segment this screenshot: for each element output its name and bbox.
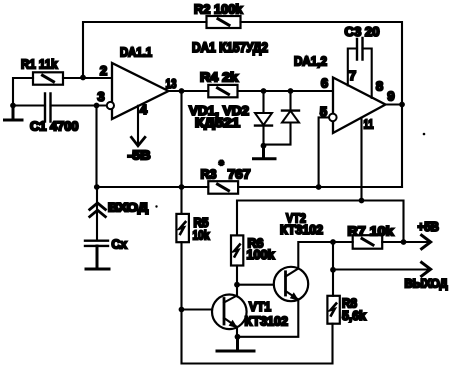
svg-text:-5В: -5В: [128, 148, 151, 163]
capacitor C1: [45, 94, 51, 122]
resistor R6: [231, 235, 243, 265]
resistor R5: [176, 214, 189, 242]
svg-text:КТ3102: КТ3102: [245, 314, 289, 329]
speck dots: [155, 133, 425, 208]
svg-text:ВЫХОД: ВЫХОД: [405, 277, 448, 291]
arrow +5V: [422, 235, 431, 249]
wire VT1 base: [182, 308, 223, 310]
svg-text:6: 6: [321, 76, 328, 91]
terminal bar below diodes: [254, 146, 276, 159]
wire pin 4 negative supply: [137, 106, 139, 145]
capacitor Cx: [85, 241, 108, 246]
arrow -5V: [131, 137, 145, 146]
svg-text:13: 13: [166, 76, 177, 91]
svg-text:КТ3102: КТ3102: [280, 222, 323, 237]
wire VT2 collector: [298, 242, 333, 269]
wire VT2 emitter: [238, 300, 299, 337]
ground bar below VT1: [217, 337, 254, 351]
resistor R2: [207, 16, 241, 28]
arrow output: [422, 262, 431, 276]
diode VD2: [264, 91, 300, 145]
svg-text:R7 10k: R7 10k: [348, 224, 395, 239]
diode VD1: [255, 91, 272, 146]
transistor VT1: [212, 295, 247, 330]
wire R4 to op-amp pin 6: [238, 90, 334, 92]
svg-text:DA1 К157УД2: DA1 К157УД2: [192, 40, 268, 55]
wire +5V rail: [237, 201, 404, 243]
svg-text:ВХОД: ВХОД: [108, 201, 149, 215]
wire +5V arrow: [404, 241, 428, 243]
svg-text:7: 7: [349, 68, 356, 83]
svg-text:5,6k: 5,6k: [342, 308, 367, 323]
svg-text:767: 767: [228, 167, 251, 182]
svg-text:100k: 100k: [247, 247, 276, 262]
svg-text:*: *: [219, 158, 224, 172]
svg-text:R1 11k: R1 11k: [21, 57, 58, 72]
wire pin2 input: [13, 78, 112, 106]
wire R3 row: [97, 186, 403, 188]
capacitor C3: [357, 38, 363, 60]
svg-text:4: 4: [140, 102, 148, 117]
svg-text:DA1.1: DA1.1: [120, 45, 152, 60]
transistor VT2: [274, 267, 308, 301]
wire pin 5 stub: [319, 117, 329, 187]
svg-text:C3 20: C3 20: [345, 24, 380, 39]
svg-text:9: 9: [387, 89, 394, 104]
wire pin 7 to C3: [348, 49, 357, 86]
wire pin 11 supply: [360, 118, 362, 201]
wire R5 column: [182, 187, 333, 364]
svg-text:R4 2k: R4 2k: [200, 70, 239, 85]
wire C1 row: [13, 104, 108, 106]
wire R7 leads: [333, 241, 404, 243]
wire input probe: [96, 187, 98, 240]
wire inverting feedback column: [95, 106, 97, 188]
svg-text:11: 11: [364, 117, 374, 132]
terminal bar below Cx: [86, 246, 109, 269]
resistor R1: [33, 72, 63, 84]
wire output arrow: [333, 268, 427, 270]
wire VT2 base: [237, 284, 284, 286]
svg-text:+5В: +5В: [418, 219, 440, 234]
svg-text:C1 4700: C1 4700: [30, 119, 79, 134]
svg-text:10k: 10k: [193, 228, 211, 243]
input probe chevrons: [90, 203, 106, 217]
svg-text:3: 3: [97, 89, 104, 104]
svg-text:8: 8: [376, 79, 383, 94]
wire R6 bottom: [236, 266, 238, 285]
wire DA1.1 output: [169, 91, 209, 187]
wire top feedback rail R2 net: [83, 22, 402, 187]
svg-text:VT1: VT1: [249, 299, 271, 314]
svg-text:Cx: Cx: [112, 237, 128, 252]
op-amp DA1.2: [333, 78, 386, 134]
wire C3 to pin 8: [363, 49, 372, 98]
terminal bar left: [5, 106, 23, 121]
resistor R4: [208, 85, 237, 97]
wire pin 9 output: [386, 103, 403, 105]
svg-text:КД521: КД521: [195, 115, 240, 130]
svg-text:DA1,2: DA1,2: [294, 54, 327, 69]
op-amp DA1.1: [112, 63, 169, 119]
inverting input circle pin 3: [107, 102, 114, 109]
svg-text:2: 2: [100, 63, 107, 78]
svg-text:R2 100k: R2 100k: [194, 2, 243, 17]
svg-text:R3: R3: [201, 167, 217, 182]
resistor R3: [208, 181, 238, 194]
resistor R8: [327, 296, 339, 324]
wire VT1 emitter to ground: [236, 327, 238, 337]
inverting input circle pin 5: [329, 114, 337, 122]
wire output column: [332, 242, 334, 296]
wire VT1 collector: [236, 285, 238, 296]
resistor R7: [353, 235, 383, 249]
